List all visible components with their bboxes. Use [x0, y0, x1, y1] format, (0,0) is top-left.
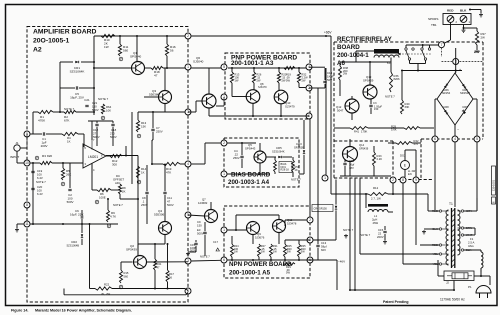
svg-text:−: −	[457, 128, 459, 132]
svg-text:100E: 100E	[99, 195, 106, 199]
svg-text:500V: 500V	[92, 108, 99, 112]
svg-text:50V: 50V	[327, 78, 332, 82]
svg-text:P: P	[120, 57, 122, 61]
svg-text:J1: J1	[15, 141, 19, 145]
svg-text:NOTE 7: NOTE 7	[36, 180, 46, 184]
svg-text:5W: 5W	[287, 250, 291, 254]
svg-text:A6: A6	[337, 60, 345, 67]
svg-text:4: 4	[187, 162, 189, 166]
svg-text:500V: 500V	[67, 200, 74, 204]
svg-text:SR154P: SR154P	[460, 91, 470, 95]
svg-text:P: P	[62, 182, 64, 186]
svg-text:NOTE 7: NOTE 7	[360, 233, 371, 237]
svg-text:.05Ω: .05Ω	[372, 221, 378, 225]
svg-text:J2: J2	[446, 281, 449, 285]
svg-text:8206: 8206	[394, 77, 401, 81]
svg-text:2.7, 1W: 2.7, 1W	[371, 197, 381, 201]
svg-text:A2: A2	[33, 47, 42, 54]
svg-text:2W: 2W	[481, 35, 486, 39]
svg-text:5W: 5W	[286, 79, 290, 83]
svg-text:SPS443: SPS443	[245, 146, 256, 150]
svg-text:LM201: LM201	[88, 155, 98, 159]
svg-text:200V: 200V	[41, 144, 48, 148]
svg-text:200-1004-1: 200-1004-1	[337, 52, 369, 59]
svg-text:8: 8	[402, 178, 404, 182]
svg-text:P: P	[108, 224, 110, 228]
svg-text:Patent Pending: Patent Pending	[383, 300, 408, 304]
svg-text:11: 11	[25, 222, 29, 226]
svg-text:2W: 2W	[302, 79, 306, 83]
svg-text:6.4V: 6.4V	[37, 176, 43, 180]
svg-text:RED: RED	[447, 9, 454, 13]
svg-text:560: 560	[124, 274, 129, 278]
svg-text:1K: 1K	[67, 139, 71, 143]
svg-text:130-1001: 130-1001	[492, 179, 496, 191]
svg-text:NOTE 7: NOTE 7	[64, 107, 75, 111]
svg-text:470K: 470K	[38, 118, 46, 122]
svg-text:R15: R15	[124, 271, 129, 275]
svg-text:AMPLIFIER BOARD: AMPLIFIER BOARD	[33, 29, 97, 36]
svg-text:179K: 179K	[361, 130, 368, 134]
svg-text:200-1003-1 A4: 200-1003-1 A4	[228, 179, 270, 186]
svg-text:1W: 1W	[235, 79, 239, 83]
svg-text:CR9: CR9	[462, 105, 468, 109]
svg-text:R41: R41	[354, 130, 359, 134]
svg-text:56: 56	[170, 48, 174, 52]
svg-text:47: 47	[154, 73, 158, 77]
svg-text:250V: 250V	[156, 129, 163, 133]
svg-text:Q14: Q14	[359, 143, 365, 147]
svg-text:250V: 250V	[233, 156, 240, 160]
svg-text:550386: 550386	[149, 92, 160, 96]
svg-text:SZS1064K: SZS1064K	[272, 149, 285, 153]
svg-text:CR3: CR3	[296, 142, 302, 146]
svg-text:16μF, 25V: 16μF, 25V	[70, 96, 85, 100]
svg-text:P: P	[138, 180, 140, 184]
svg-text:R21: R21	[157, 262, 162, 266]
svg-text:5J3676: 5J3676	[255, 235, 265, 239]
svg-text:5: 5	[223, 65, 225, 69]
svg-text:9: 9	[415, 178, 417, 182]
svg-text:5W: 5W	[301, 250, 305, 254]
svg-text:16μf: 16μf	[349, 162, 355, 166]
svg-text:7: 7	[441, 43, 443, 47]
svg-text:300: 300	[112, 162, 117, 166]
svg-text:8: 8	[26, 203, 28, 207]
svg-text:SPS440: SPS440	[130, 54, 142, 58]
svg-text:2.2K: 2.2K	[377, 157, 383, 161]
svg-text:500V: 500V	[93, 135, 100, 139]
svg-text:5: 5	[476, 137, 478, 141]
svg-text:4: 4	[93, 168, 95, 172]
svg-text:2K: 2K	[122, 189, 126, 193]
svg-text:5047: 5047	[337, 108, 344, 112]
svg-text:NOTE 7: NOTE 7	[385, 95, 395, 99]
svg-text:20O-1005-1: 20O-1005-1	[33, 38, 69, 45]
svg-text:Marantz Model 16 Power Amplifi: Marantz Model 16 Power Amplifier, Schema…	[35, 308, 132, 312]
svg-text:555306: 555306	[154, 212, 165, 216]
svg-text:150: 150	[197, 223, 202, 227]
svg-text:56: 56	[169, 275, 172, 279]
svg-text:820: 820	[42, 159, 43, 160]
svg-text:SR153B: SR153B	[294, 145, 304, 149]
svg-text:CR8: CR8	[443, 105, 449, 109]
svg-text:2W: 2W	[273, 250, 277, 254]
svg-text:33K: 33K	[405, 105, 410, 109]
svg-text:2: 2	[456, 20, 458, 24]
svg-text:RECTIFIER/RELAY: RECTIFIER/RELAY	[337, 36, 393, 43]
svg-text:1: 1	[223, 172, 225, 176]
svg-text:16μF, 25V: 16μF, 25V	[70, 212, 83, 216]
svg-text:67K: 67K	[64, 118, 70, 122]
svg-text:4.7K: 4.7K	[110, 214, 116, 218]
svg-text:1179AE 50/60 Hz: 1179AE 50/60 Hz	[440, 298, 465, 302]
svg-text:560: 560	[123, 48, 128, 52]
svg-text:SJ5040: SJ5040	[193, 59, 204, 63]
svg-text:150: 150	[87, 103, 88, 104]
svg-text:NOTE 7: NOTE 7	[291, 178, 301, 182]
svg-text:3AG: 3AG	[468, 244, 474, 248]
svg-text:2W: 2W	[261, 250, 265, 254]
svg-text:3: 3	[85, 162, 87, 166]
svg-text:C3: C3	[373, 101, 377, 105]
svg-text:47K: 47K	[166, 170, 171, 174]
svg-text:SPS409: SPS409	[363, 78, 374, 82]
svg-text:SP5439: SP5439	[359, 146, 369, 150]
svg-text:BIAS BOARD: BIAS BOARD	[231, 172, 271, 179]
svg-text:NOTE 7: NOTE 7	[200, 255, 210, 259]
svg-text:SZS1064B: SZS1064B	[66, 243, 79, 247]
svg-text:200-1001-1 A3: 200-1001-1 A3	[231, 60, 274, 67]
svg-text:T1: T1	[449, 202, 453, 206]
svg-text:EN: EN	[408, 172, 412, 176]
svg-text:SR154: SR154	[442, 91, 451, 95]
svg-text:INPUT: INPUT	[10, 155, 19, 159]
svg-text:200-1000-1 A5: 200-1000-1 A5	[229, 270, 271, 277]
svg-text:500V: 500V	[197, 231, 204, 235]
svg-text:NOTE 7: NOTE 7	[343, 228, 354, 232]
svg-text:SJ3479: SJ3479	[285, 104, 295, 108]
svg-text:26K: 26K	[66, 172, 71, 176]
svg-text:1: 1	[469, 20, 471, 24]
svg-text:2: 2	[309, 218, 311, 222]
svg-text:SJ3479: SJ3479	[258, 86, 267, 89]
svg-text:P: P	[138, 134, 140, 138]
svg-text:TB1: TB1	[431, 23, 437, 27]
svg-text:Figure 14.: Figure 14.	[11, 308, 28, 312]
svg-text:2: 2	[223, 141, 225, 145]
svg-text:−46V: −46V	[338, 260, 345, 264]
svg-text:CR5: CR5	[276, 146, 282, 150]
svg-text:R28 1K: R28 1K	[281, 168, 290, 172]
svg-text:C17: C17	[213, 240, 218, 244]
svg-text:CR2: CR2	[71, 240, 77, 244]
svg-text:6.4V: 6.4V	[37, 192, 43, 196]
svg-text:C21: C21	[84, 98, 90, 102]
svg-text:E: E	[404, 164, 406, 168]
svg-text:200V: 200V	[377, 235, 384, 239]
svg-text:SPKRS: SPKRS	[428, 17, 438, 21]
svg-text:500V: 500V	[167, 203, 174, 207]
svg-text:R22: R22	[104, 283, 110, 287]
svg-text:P: P	[96, 200, 98, 204]
svg-text:5W: 5W	[286, 271, 290, 275]
svg-text:5J3478: 5J3478	[287, 221, 297, 225]
svg-text:1W: 1W	[234, 250, 238, 254]
svg-text:+: +	[459, 68, 461, 72]
svg-text:CR4 5R150: CR4 5R150	[314, 207, 328, 211]
svg-text:SZS1064K: SZS1064K	[70, 69, 86, 73]
svg-text:123682: 123682	[198, 201, 208, 205]
svg-text:SP5439: SP5439	[126, 247, 137, 251]
svg-text:60V: 60V	[321, 248, 326, 252]
svg-text:15K: 15K	[141, 124, 146, 128]
svg-text:10: 10	[25, 161, 29, 165]
svg-text:47: 47	[157, 265, 160, 269]
svg-text:1: 1	[324, 176, 326, 180]
svg-text:10K: 10K	[106, 108, 111, 112]
svg-text:6: 6	[223, 258, 225, 262]
svg-text:1: 1	[223, 228, 225, 232]
svg-text:2: 2	[187, 34, 189, 38]
svg-text:15F: 15F	[374, 107, 379, 111]
svg-text:2K, 2W: 2K, 2W	[101, 292, 111, 296]
svg-text:2: 2	[392, 178, 394, 182]
svg-text:R3: R3	[42, 154, 46, 158]
svg-text:BOARD: BOARD	[337, 44, 360, 51]
svg-text:NOTE 7: NOTE 7	[113, 203, 123, 207]
svg-text:6: 6	[434, 137, 436, 141]
svg-text:18V: 18V	[349, 166, 354, 170]
svg-text:BLK: BLK	[460, 9, 467, 13]
svg-text:6: 6	[492, 201, 496, 203]
svg-text:+66V: +66V	[324, 31, 332, 35]
svg-text:4: 4	[454, 137, 456, 141]
svg-text:3: 3	[187, 259, 189, 263]
svg-text:2W: 2W	[343, 72, 348, 76]
svg-text:C10: C10	[349, 159, 354, 163]
svg-text:P1: P1	[468, 285, 472, 289]
svg-text:2W: 2W	[257, 79, 261, 83]
svg-text:P: P	[102, 116, 104, 120]
svg-text:P: P	[36, 156, 38, 160]
svg-text:NOTE 7: NOTE 7	[98, 97, 109, 101]
svg-text:R12: R12	[373, 186, 379, 190]
svg-text:1: 1	[187, 65, 189, 69]
svg-text:R17: R17	[169, 272, 174, 276]
svg-text:NPN POWER BOARD: NPN POWER BOARD	[229, 261, 292, 268]
svg-text:820: 820	[47, 154, 52, 158]
svg-text:1K: 1K	[295, 168, 298, 172]
svg-text:1K: 1K	[141, 170, 145, 174]
svg-text:1W: 1W	[104, 45, 109, 49]
svg-text:2: 2	[85, 146, 87, 150]
